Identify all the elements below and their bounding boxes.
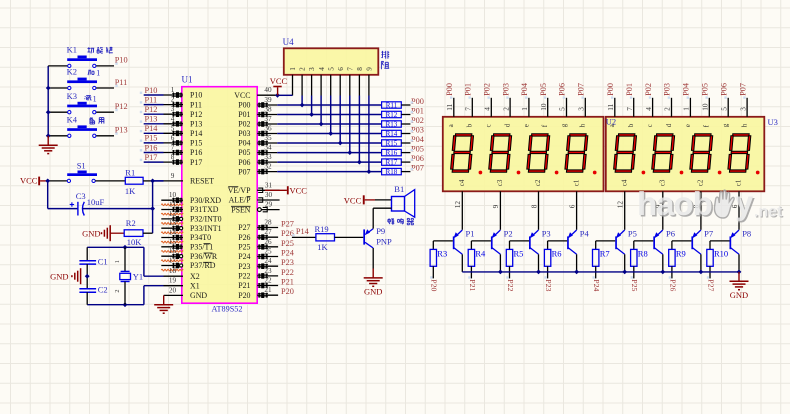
svg-text:h: h: [741, 123, 749, 127]
svg-text:P02: P02: [644, 83, 653, 96]
svg-text:R8: R8: [638, 248, 648, 258]
svg-text:12: 12: [616, 201, 625, 209]
svg-text:b: b: [466, 123, 474, 127]
svg-text:22: 22: [264, 277, 272, 285]
svg-text:P23: P23: [544, 279, 553, 291]
svg-text:26: 26: [264, 238, 272, 246]
svg-text:P04: P04: [411, 135, 425, 144]
svg-text:R18: R18: [386, 168, 398, 176]
svg-text:U4: U4: [283, 37, 294, 47]
svg-text:P07: P07: [577, 83, 586, 96]
svg-text:K4: K4: [67, 114, 78, 124]
svg-text:2: 2: [171, 96, 175, 104]
svg-text:2: 2: [501, 107, 510, 111]
svg-text:29: 29: [265, 201, 273, 209]
svg-text:VCC: VCC: [344, 195, 362, 205]
svg-text:P15: P15: [145, 134, 158, 143]
svg-text:U1: U1: [182, 75, 193, 85]
svg-text:P22: P22: [506, 279, 515, 291]
svg-text:3: 3: [171, 105, 175, 113]
svg-text:P14: P14: [145, 124, 159, 133]
svg-text:P25: P25: [281, 239, 294, 248]
svg-text:c2: c2: [534, 179, 542, 186]
svg-text:P01: P01: [238, 110, 250, 119]
svg-text:R7: R7: [600, 248, 610, 258]
svg-text:P01: P01: [625, 83, 634, 96]
svg-text:c1: c1: [572, 179, 580, 186]
svg-text:P00: P00: [238, 101, 250, 110]
svg-text:P00: P00: [606, 83, 615, 96]
svg-text:8: 8: [171, 153, 175, 161]
svg-text:P26: P26: [238, 233, 250, 242]
svg-text:R1: R1: [125, 168, 135, 178]
svg-text:e: e: [684, 124, 692, 127]
svg-text:27: 27: [264, 228, 272, 236]
svg-text:GND: GND: [50, 271, 68, 281]
svg-text:c: c: [485, 124, 493, 127]
svg-text:P10: P10: [190, 91, 202, 100]
svg-text:R12: R12: [386, 111, 398, 119]
svg-text:S1: S1: [77, 160, 86, 170]
svg-text:P17: P17: [145, 153, 158, 162]
svg-text:P23: P23: [281, 258, 294, 267]
svg-text:28: 28: [264, 219, 272, 227]
svg-text:P34T0: P34T0: [190, 233, 211, 242]
svg-text:25: 25: [264, 248, 272, 256]
svg-text:b: b: [627, 123, 635, 127]
svg-text:P04: P04: [238, 139, 250, 148]
svg-text:P03: P03: [501, 83, 510, 96]
svg-text:d: d: [504, 123, 512, 127]
svg-text:11: 11: [606, 103, 615, 110]
svg-text:P22: P22: [281, 268, 294, 277]
svg-text:R9: R9: [676, 248, 686, 258]
svg-text:PNP: PNP: [376, 236, 392, 246]
svg-text:P22: P22: [238, 272, 250, 281]
svg-text:P27: P27: [281, 220, 294, 229]
svg-text:16: 16: [169, 247, 177, 255]
svg-text:VE/VP: VE/VP: [228, 186, 251, 195]
svg-text:P11: P11: [190, 100, 202, 109]
svg-text:9: 9: [366, 67, 374, 71]
svg-text:5: 5: [558, 107, 567, 111]
svg-text:4: 4: [171, 115, 175, 123]
svg-text:7: 7: [625, 107, 634, 111]
svg-text:VCC: VCC: [270, 76, 288, 86]
svg-text:3: 3: [577, 107, 586, 111]
svg-text:12: 12: [453, 201, 462, 209]
svg-text:7: 7: [464, 107, 473, 111]
svg-text:10: 10: [169, 191, 177, 199]
svg-text:R11: R11: [386, 101, 398, 109]
svg-text:R3: R3: [437, 248, 447, 258]
svg-text:2: 2: [663, 107, 672, 111]
svg-text:R15: R15: [386, 139, 398, 147]
svg-text:1: 1: [96, 69, 100, 78]
svg-text:R13: R13: [386, 120, 398, 128]
svg-text:P05: P05: [539, 83, 548, 96]
svg-text:haob: haob: [637, 185, 712, 222]
svg-text:RESET: RESET: [190, 177, 214, 186]
svg-text:18: 18: [169, 267, 177, 275]
svg-text:21: 21: [264, 286, 272, 294]
svg-text:6: 6: [171, 134, 175, 142]
svg-text:38: 38: [264, 106, 272, 114]
svg-text:R2: R2: [126, 218, 136, 228]
svg-text:K2: K2: [67, 67, 77, 77]
svg-text:2: 2: [114, 289, 121, 292]
svg-text:8: 8: [529, 204, 538, 208]
svg-text:39: 39: [264, 96, 272, 104]
svg-text:32: 32: [264, 163, 272, 171]
svg-text:c3: c3: [496, 179, 504, 186]
svg-text:R6: R6: [552, 248, 562, 258]
svg-text:P20: P20: [238, 291, 250, 300]
svg-text:24: 24: [264, 257, 272, 265]
svg-text:U3: U3: [768, 117, 778, 127]
svg-text:e: e: [522, 124, 530, 127]
svg-text:d: d: [665, 123, 673, 127]
svg-text:5: 5: [327, 67, 335, 71]
svg-text:9: 9: [171, 172, 175, 180]
svg-text:1: 1: [93, 94, 97, 103]
svg-text:P6: P6: [666, 229, 675, 239]
svg-text:1: 1: [114, 260, 121, 263]
svg-text:P14: P14: [296, 227, 310, 236]
svg-text:R16: R16: [386, 149, 398, 157]
svg-text:1: 1: [289, 67, 297, 71]
svg-text:3: 3: [738, 107, 747, 111]
svg-text:1: 1: [682, 107, 691, 111]
svg-text:P02: P02: [483, 83, 492, 96]
svg-text:B1: B1: [394, 184, 404, 194]
svg-text:R4: R4: [475, 248, 486, 258]
svg-text:P26: P26: [668, 279, 677, 291]
svg-text:P1: P1: [466, 229, 475, 239]
svg-text:13: 13: [169, 219, 177, 227]
svg-text:4: 4: [644, 107, 653, 111]
svg-text:P12: P12: [190, 110, 202, 119]
svg-text:P11: P11: [145, 95, 158, 104]
svg-text:10: 10: [701, 103, 710, 111]
svg-text:P21: P21: [281, 278, 294, 287]
svg-text:9: 9: [491, 204, 500, 208]
svg-text:y: y: [735, 184, 754, 221]
svg-text:P16: P16: [145, 143, 158, 152]
svg-text:P27: P27: [238, 223, 250, 232]
svg-text:37: 37: [264, 115, 272, 123]
svg-text:P30/RXD: P30/RXD: [190, 196, 221, 205]
svg-text:1: 1: [171, 86, 175, 94]
svg-text:C3: C3: [76, 191, 86, 201]
svg-text:P14: P14: [190, 129, 202, 138]
svg-text:19: 19: [169, 277, 177, 285]
svg-text:P24: P24: [281, 249, 295, 258]
svg-text:35: 35: [264, 134, 272, 142]
svg-text:g: g: [722, 123, 730, 127]
svg-text:6: 6: [567, 204, 576, 208]
svg-text:VCC: VCC: [20, 176, 38, 186]
svg-text:5: 5: [171, 124, 175, 132]
svg-text:ALE/P: ALE/P: [229, 196, 252, 205]
svg-text:P24: P24: [592, 279, 601, 291]
svg-text:P01: P01: [464, 83, 473, 96]
svg-text:2: 2: [299, 67, 307, 71]
svg-text:15: 15: [169, 238, 177, 246]
svg-text:P20: P20: [281, 287, 294, 296]
svg-text:17: 17: [169, 257, 177, 265]
svg-text:P2: P2: [504, 229, 513, 239]
svg-text:P7: P7: [704, 229, 713, 239]
svg-text:P20: P20: [430, 279, 439, 291]
svg-text:3: 3: [308, 67, 316, 71]
svg-text:P33/INT1: P33/INT1: [190, 224, 222, 233]
svg-text:P17: P17: [190, 158, 202, 167]
svg-text:VCC: VCC: [290, 186, 308, 196]
svg-text:P37/RD: P37/RD: [190, 261, 216, 270]
svg-text:K1: K1: [67, 45, 77, 55]
svg-text:11: 11: [445, 103, 454, 110]
svg-text:c4: c4: [620, 179, 628, 186]
svg-text:P07: P07: [738, 83, 747, 96]
svg-text:P8: P8: [742, 229, 751, 239]
svg-text:h: h: [579, 123, 587, 127]
svg-text:31: 31: [265, 181, 273, 189]
svg-text:P21: P21: [468, 279, 477, 291]
svg-text:P06: P06: [238, 158, 250, 167]
svg-text:P31TXD: P31TXD: [190, 205, 219, 214]
svg-text:P04: P04: [520, 83, 529, 96]
svg-text:P03: P03: [238, 129, 250, 138]
svg-text:40: 40: [264, 86, 272, 94]
svg-text:P12: P12: [145, 105, 158, 114]
svg-text:P4: P4: [580, 229, 590, 239]
svg-text:R5: R5: [514, 248, 524, 258]
svg-text:33: 33: [264, 153, 272, 161]
svg-text:23: 23: [264, 267, 272, 275]
svg-text:R19: R19: [315, 224, 329, 234]
svg-text:g: g: [560, 123, 568, 127]
svg-text:P13: P13: [145, 115, 158, 124]
svg-text:7: 7: [171, 144, 175, 152]
svg-text:20: 20: [169, 286, 177, 294]
svg-text:P23: P23: [238, 262, 250, 271]
svg-text:P10: P10: [145, 86, 158, 95]
svg-text:30: 30: [265, 191, 273, 199]
svg-text:10uF: 10uF: [87, 197, 105, 207]
svg-text:10: 10: [539, 103, 548, 111]
svg-text:P06: P06: [558, 83, 567, 96]
svg-text:P24: P24: [238, 252, 250, 261]
svg-text:P03: P03: [663, 83, 672, 96]
svg-text:P00: P00: [445, 83, 454, 96]
svg-text:P25: P25: [630, 279, 639, 291]
svg-text:GND: GND: [190, 291, 207, 300]
svg-text:8: 8: [356, 67, 364, 71]
svg-text:X2: X2: [190, 272, 200, 281]
svg-text:Y1: Y1: [133, 272, 143, 282]
svg-text:P13: P13: [190, 120, 202, 129]
svg-text:5: 5: [719, 107, 728, 111]
svg-text:P27: P27: [706, 279, 715, 291]
svg-text:AT89S52: AT89S52: [212, 304, 243, 313]
svg-text:P04: P04: [682, 83, 691, 96]
svg-text:.net: .net: [754, 204, 783, 221]
svg-text:P07: P07: [238, 167, 250, 176]
svg-text:6: 6: [337, 67, 345, 71]
svg-text:1K: 1K: [317, 242, 328, 252]
svg-text:7: 7: [346, 67, 354, 71]
svg-text:c4: c4: [458, 179, 466, 186]
svg-text:P9: P9: [376, 226, 385, 236]
svg-text:P25: P25: [238, 243, 250, 252]
svg-text:GND: GND: [82, 228, 100, 238]
svg-text:4: 4: [483, 107, 492, 111]
svg-text:P16: P16: [190, 148, 202, 157]
svg-text:R10: R10: [714, 248, 728, 258]
svg-text:P05: P05: [701, 83, 710, 96]
svg-text:11: 11: [169, 201, 176, 209]
svg-text:4: 4: [318, 67, 326, 71]
svg-text:34: 34: [264, 144, 272, 152]
svg-text:1: 1: [520, 107, 529, 111]
svg-text:P06: P06: [719, 83, 728, 96]
svg-text:GND: GND: [730, 290, 748, 300]
svg-text:P5: P5: [628, 229, 637, 239]
svg-text:K3: K3: [67, 91, 77, 101]
svg-text:C1: C1: [98, 257, 108, 267]
svg-text:P15: P15: [190, 139, 202, 148]
svg-text:P02: P02: [238, 120, 250, 129]
svg-text:36: 36: [264, 125, 272, 133]
svg-text:14: 14: [169, 229, 177, 237]
svg-text:R14: R14: [386, 130, 398, 138]
svg-text:1K: 1K: [125, 186, 136, 196]
svg-text:C2: C2: [98, 285, 108, 295]
svg-text:X1: X1: [190, 281, 200, 290]
svg-text:GND: GND: [364, 287, 382, 297]
svg-text:P05: P05: [238, 148, 250, 157]
svg-text:10K: 10K: [127, 237, 143, 247]
svg-text:R17: R17: [386, 159, 398, 167]
svg-text:P32/INT0: P32/INT0: [190, 215, 222, 224]
svg-text:P21: P21: [238, 281, 250, 290]
svg-text:VCC: VCC: [234, 91, 250, 100]
svg-text:P3: P3: [542, 229, 551, 239]
svg-text:c: c: [646, 124, 654, 127]
svg-text:12: 12: [169, 210, 177, 218]
